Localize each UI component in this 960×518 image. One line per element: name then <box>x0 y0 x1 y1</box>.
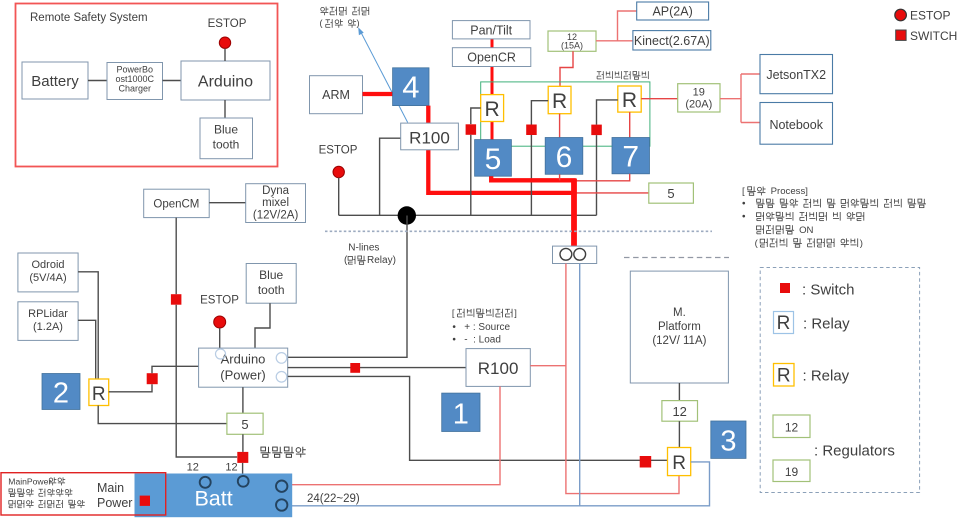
svg-text:Kinect(2.67A): Kinect(2.67A) <box>634 34 710 48</box>
svg-text:Relay): Relay) <box>367 255 396 266</box>
N-line separator dashed <box>325 230 712 232</box>
svg-text:12: 12 <box>187 462 199 474</box>
svg-text:Blue: Blue <box>214 123 238 137</box>
svg-text:R: R <box>92 384 106 405</box>
battery terminal T4 <box>276 499 287 510</box>
arduino power controller <box>199 348 288 387</box>
battery terminal T3 <box>276 481 287 492</box>
wire connector red drop <box>566 264 679 494</box>
svg-text:(20A): (20A) <box>685 99 712 111</box>
svg-text:12: 12 <box>785 420 799 434</box>
wire estop E2 drop <box>338 178 340 216</box>
legend regulator 12 symbol <box>773 415 810 438</box>
wire opencr down thick red <box>491 67 494 140</box>
wire estop E3 to arduino power <box>219 328 221 348</box>
separator dashed short <box>624 257 729 259</box>
wire arduino power to platform relay <box>288 376 668 460</box>
wire battery to charger <box>88 80 107 82</box>
opencr board <box>452 48 530 67</box>
wire opencm to dynamixel <box>209 202 246 204</box>
label master power <box>261 447 271 458</box>
svg-text:3: 3 <box>720 426 736 458</box>
estop button E2 <box>333 166 344 177</box>
svg-text:: Switch: : Switch <box>802 282 855 299</box>
wire node7 drop <box>574 174 630 181</box>
switch S5 <box>147 373 158 384</box>
svg-text:R: R <box>777 313 791 334</box>
svg-text:: Relay: : Relay <box>803 368 850 385</box>
wire switch S2 to N-line <box>530 135 532 215</box>
notebook load <box>760 103 833 145</box>
svg-text:ESTOP: ESTOP <box>319 145 358 157</box>
rplidar load <box>18 302 78 341</box>
wire branch to AP <box>618 11 637 41</box>
switch S7 <box>640 456 652 468</box>
wire relay R4 to switch S5 <box>109 384 152 392</box>
M platform motor <box>630 271 728 383</box>
wire node5 down thick red <box>491 176 576 180</box>
svg-text:4: 4 <box>402 70 419 105</box>
svg-text:5: 5 <box>241 417 248 432</box>
svg-text:•: • <box>742 212 746 223</box>
wire bus to regulator5 <box>574 192 649 194</box>
remote safety system enclosure <box>16 4 278 167</box>
svg-text:R: R <box>672 453 686 474</box>
svg-text:N-lines: N-lines <box>348 243 379 254</box>
svg-text:(Power): (Power) <box>220 368 266 383</box>
junction node <box>398 206 416 224</box>
svg-text:Battery: Battery <box>31 73 79 90</box>
note attach to front panel <box>321 7 329 16</box>
svg-text:R100: R100 <box>409 129 450 148</box>
svg-text:6: 6 <box>556 141 573 174</box>
svg-text:(: ( <box>344 255 348 266</box>
svg-text:[: [ <box>452 307 455 318</box>
wire node6 drop <box>559 174 561 180</box>
wire regulator5b to main switch <box>242 434 244 452</box>
switch S9 main <box>140 496 150 506</box>
svg-text:: Regulators: : Regulators <box>814 443 895 460</box>
wire arduino power to switch S6 <box>288 367 466 369</box>
wire relay R5 to battery blue <box>289 462 710 506</box>
relay R1 <box>481 95 504 122</box>
switch S1 <box>466 124 477 135</box>
wire R100 to bus red <box>530 365 566 367</box>
relay R3 <box>618 86 641 112</box>
svg-text:RPLidar: RPLidar <box>28 308 68 320</box>
wire regulator19 to loads <box>720 98 741 100</box>
svg-text:R100: R100 <box>478 359 519 378</box>
svg-text:): ) <box>860 238 863 249</box>
svg-text:12: 12 <box>225 462 237 474</box>
svg-text:24(22~29): 24(22~29) <box>307 493 360 505</box>
svg-text:ON: ON <box>799 225 813 236</box>
relay box R100 lower <box>466 349 530 387</box>
arduino U1 <box>181 61 270 100</box>
legend switch symbol <box>780 283 790 293</box>
svg-text:[: [ <box>742 186 745 197</box>
charger PowerBoost1000C <box>107 63 163 100</box>
wire master switch to battery <box>242 463 244 482</box>
opencm board <box>144 189 210 217</box>
relay R4 <box>89 379 109 406</box>
svg-text:JetsonTX2: JetsonTX2 <box>766 68 826 82</box>
bluetooth module BT2 <box>246 264 296 304</box>
kinect load 2.67A <box>633 31 711 50</box>
jetson TX2 load <box>760 55 833 94</box>
wire opencm drop lower <box>176 305 237 457</box>
connector J1 <box>553 246 597 263</box>
svg-text:ost1000C: ost1000C <box>116 74 155 84</box>
svg-text:(5V/4A): (5V/4A) <box>29 272 66 284</box>
svg-text:(1.2A): (1.2A) <box>33 321 63 333</box>
switch S3 <box>591 125 602 136</box>
wire relay R3 to regulator19 <box>641 98 678 100</box>
svg-text:7: 7 <box>622 141 639 174</box>
node 7 <box>612 138 650 174</box>
wire regulator12 to relay R2 <box>560 51 573 86</box>
regulator 5b <box>227 413 263 434</box>
svg-text:Arduino: Arduino <box>198 74 253 91</box>
svg-text:ESTOP: ESTOP <box>208 18 247 30</box>
svg-text:5: 5 <box>667 186 674 201</box>
svg-text:(: ( <box>320 18 323 28</box>
wire rplidar to relay R4 <box>78 320 96 379</box>
svg-text:• + : Source: • + : Source <box>452 322 510 333</box>
label shoulder control box <box>597 71 603 79</box>
wire platform to regulator12b <box>678 383 680 401</box>
regulator 5 <box>649 183 694 203</box>
regulator 12b <box>662 401 698 422</box>
svg-text:ESTOP: ESTOP <box>200 295 239 307</box>
svg-text:• - : Load: • - : Load <box>452 334 501 345</box>
svg-text:MainPower: MainPower <box>8 476 51 486</box>
odroid load <box>18 253 78 292</box>
svg-text:AP(2A): AP(2A) <box>652 5 692 19</box>
svg-text:R: R <box>622 89 637 112</box>
bluetooth module BT1 <box>200 118 253 159</box>
wire opencm drop upper <box>175 218 177 295</box>
wire junction to arduino power <box>288 216 407 358</box>
svg-text:19: 19 <box>785 465 799 479</box>
svg-text:1: 1 <box>453 399 469 431</box>
svg-text:Process]: Process] <box>771 186 808 197</box>
svg-text:(15A): (15A) <box>561 41 583 51</box>
svg-text:OpenCM: OpenCM <box>153 199 199 211</box>
svg-text:Remote Safety System: Remote Safety System <box>30 12 148 24</box>
svg-text:(12V/2A): (12V/2A) <box>253 210 299 222</box>
wire node4 down thick red <box>428 106 576 193</box>
svg-text:SWITCH: SWITCH <box>910 29 957 43</box>
wire regulator12 to kinect <box>596 40 633 42</box>
node 6 <box>545 138 583 175</box>
svg-text:ESTOP: ESTOP <box>910 9 950 23</box>
svg-text:Charger: Charger <box>119 84 152 94</box>
node 5 <box>475 140 512 177</box>
wire ARM to node4 thick red <box>363 92 393 96</box>
estop button E3 <box>214 316 226 328</box>
node 3 <box>711 421 746 458</box>
svg-text:R: R <box>485 98 500 121</box>
svg-text:mixel: mixel <box>262 197 289 209</box>
svg-text:ARM: ARM <box>322 88 350 102</box>
switch S8 master power <box>237 452 248 463</box>
AP load 2A <box>637 2 709 20</box>
legend enclosure <box>760 268 919 493</box>
svg-text:Odroid: Odroid <box>31 259 64 271</box>
battery terminal T2 <box>238 476 249 487</box>
svg-text:PowerBo: PowerBo <box>117 65 154 75</box>
wire bluetooth BT2 to arduino power <box>255 303 270 348</box>
node 1 <box>442 393 480 431</box>
svg-text:tooth: tooth <box>258 283 285 297</box>
svg-text:2: 2 <box>53 378 69 410</box>
svg-text:OpenCR: OpenCR <box>467 51 516 65</box>
svg-text:Pan/Tilt: Pan/Tilt <box>470 23 512 37</box>
svg-text:19: 19 <box>693 87 705 99</box>
wire R100 to battery red <box>290 386 501 484</box>
relay box R100 upper <box>401 123 459 150</box>
svg-text:Notebook: Notebook <box>769 118 823 132</box>
regulator 12 15A <box>548 31 596 51</box>
relay R2 <box>548 86 571 113</box>
svg-text:Power: Power <box>97 496 132 510</box>
svg-text:R: R <box>777 366 791 387</box>
battery pack Batt <box>135 474 292 517</box>
estop button E1 <box>219 37 230 48</box>
svg-text:Platform: Platform <box>658 321 701 333</box>
legend estop <box>895 9 907 21</box>
regulator 19 20A <box>678 84 720 112</box>
wire switch S5 to arduino power <box>152 366 199 373</box>
svg-text:M.: M. <box>673 307 686 319</box>
wire relay R2 to switch S2 <box>531 101 548 125</box>
wire regulator12b to relay R5 <box>678 421 680 447</box>
svg-text:12: 12 <box>672 404 686 419</box>
svg-text:•: • <box>742 198 746 209</box>
legend switch <box>896 30 906 40</box>
bus vertical thick red <box>571 179 577 247</box>
legend regulator 19 symbol <box>773 460 810 482</box>
ARM box <box>310 76 363 114</box>
wire pantilt to opencr thick red <box>491 39 494 48</box>
node 4 <box>393 68 429 106</box>
svg-text:Arduino: Arduino <box>221 352 266 367</box>
wire R100 hook <box>380 138 401 215</box>
wire estop to arduino <box>224 48 226 61</box>
svg-text:Blue: Blue <box>259 268 283 282</box>
battery terminal T1 <box>200 477 211 488</box>
wire switch S1 to N-line <box>470 135 472 216</box>
wire relay R1 to switch S1 <box>471 108 481 124</box>
wire odroid to relay R4 <box>78 272 98 379</box>
switch S6 <box>350 363 360 373</box>
svg-text:: Relay: : Relay <box>803 316 850 333</box>
wire relay R4 to regulator5b <box>98 406 227 424</box>
node 2 <box>42 374 80 410</box>
wire arduino to bluetooth <box>224 100 226 118</box>
svg-text:R: R <box>552 90 567 113</box>
switch S2 <box>526 125 537 136</box>
main power enclosure <box>1 473 166 515</box>
svg-text:(: ( <box>755 238 759 249</box>
svg-text:]: ] <box>514 307 517 318</box>
svg-text:(12V/ 11A): (12V/ 11A) <box>652 335 706 347</box>
relay R5 <box>668 448 691 476</box>
pan tilt unit <box>452 21 530 39</box>
legend relay blue symbol <box>774 312 794 334</box>
switch S4 <box>171 294 182 305</box>
wire switch S3 to N-line <box>596 135 598 215</box>
callout arrow to front panel <box>361 32 408 123</box>
svg-text:5: 5 <box>485 143 502 176</box>
svg-text:Batt: Batt <box>194 487 232 511</box>
svg-text:Dyna: Dyna <box>262 185 289 197</box>
battery B1 <box>22 62 88 99</box>
N-line bus <box>339 214 597 216</box>
wire connector blue drop <box>579 264 581 506</box>
svg-text:): ) <box>357 18 360 28</box>
wire arduino power to regulator5b <box>242 387 244 413</box>
wire charger to arduino <box>163 80 182 82</box>
svg-text:Main: Main <box>97 481 124 495</box>
svg-text:tooth: tooth <box>213 138 240 152</box>
legend relay orange symbol <box>774 364 795 387</box>
wire relay R3 to switch S3 <box>597 100 618 125</box>
wire relay R2 to node6 <box>559 114 561 138</box>
dynamixel servo <box>246 184 306 223</box>
wire relay R3 to node7 <box>629 112 631 137</box>
shoulder control box enclosure <box>481 82 650 146</box>
